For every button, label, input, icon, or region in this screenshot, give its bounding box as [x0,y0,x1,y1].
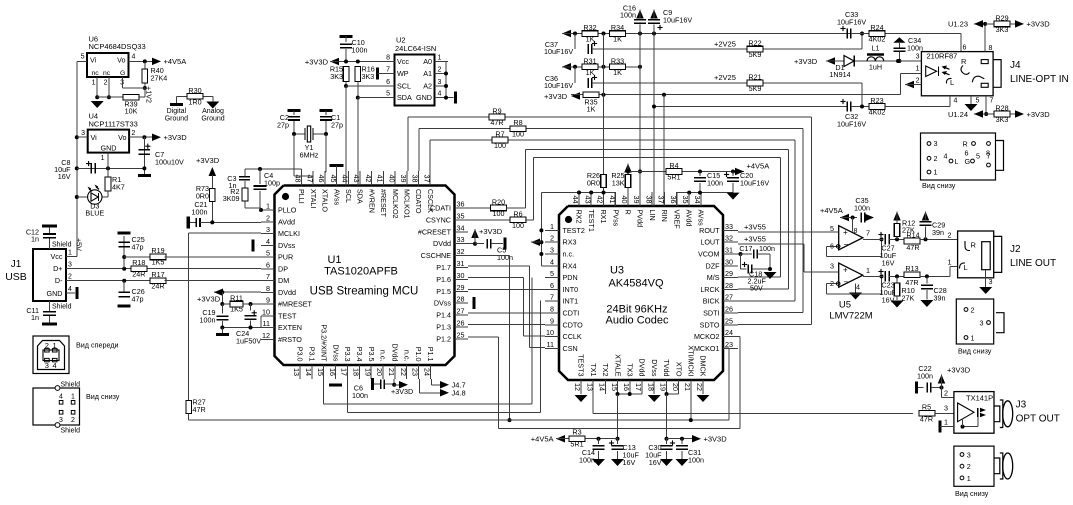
resistor R25 13K [625,175,631,188]
power +3V3D arrow at U2 Vcc [330,58,339,66]
svg-text:+3V3D: +3V3D [544,92,568,101]
arrow on RX3 row [531,238,540,246]
J4 pin8 wire [984,24,986,52]
svg-text:32: 32 [457,247,465,256]
svg-text:16V: 16V [623,458,636,467]
wire PUR to U1 [165,256,261,258]
svg-text:XTALE: XTALE [613,354,622,376]
svg-text:16V: 16V [882,259,895,268]
svg-text:Vo: Vo [118,133,126,142]
wire U1.23 net [974,23,985,25]
regulator U4 NCP1117ST33 [81,112,138,163]
svg-text:U3: U3 [610,265,624,277]
ground bar above C12 [49,227,51,233]
LED D3 BLUE [107,191,109,197]
svg-text:L: L [955,157,959,166]
svg-text:R29: R29 [995,14,1008,23]
capacitor C6 100n [371,378,374,390]
capacitor C10 100n [340,35,353,38]
wire U3 TVdd net to C30 [667,393,679,395]
wire +4V5A analog rail [628,171,744,173]
svg-text:P1.5: P1.5 [436,287,451,296]
svg-text:8: 8 [386,55,390,62]
svg-text:R31: R31 [583,56,596,65]
wire U2 address pins tied to GND [445,62,447,98]
resistor R24 4K02 [851,33,961,35]
svg-text:38: 38 [411,175,420,183]
svg-text:PUR: PUR [278,253,293,262]
svg-text:19: 19 [363,368,372,376]
svg-text:11: 11 [263,319,270,328]
svg-text:3: 3 [68,262,72,269]
svg-text:U1: U1 [327,254,341,266]
svg-text:PLLI: PLLI [297,189,306,204]
capacitor C23 10uF 16V [878,271,883,273]
wire U3 DVdd net to C13 [618,393,643,395]
svg-text:3: 3 [59,417,63,424]
svg-text:3K09: 3K09 [223,194,240,203]
svg-text:R33: R33 [611,56,624,65]
power +3V3D arrow at R35 [571,92,580,100]
svg-text:A0: A0 [423,57,432,66]
svg-text:TEST: TEST [278,311,297,320]
svg-text:6: 6 [266,260,270,269]
capacitor C36 10uF16V [574,67,576,83]
J3 optical lens symbol [994,400,1013,428]
diode D1 1N914 [826,60,921,62]
connector J4 combined box 210RF87 [921,52,993,96]
svg-text:MCKO1: MCKO1 [694,344,720,353]
capacitor C35 100n [860,212,862,222]
svg-text:D+: D+ [53,264,62,273]
svg-text:n.c.: n.c. [379,350,388,362]
svg-text:20: 20 [375,368,384,376]
svg-text:RIN: RIN [660,210,669,222]
svg-text:PVss: PVss [611,210,620,227]
ground under C30 [660,459,673,466]
svg-text:100: 100 [512,221,524,230]
svg-text:1: 1 [934,168,938,177]
svg-text:AVss: AVss [332,189,341,206]
ground arrow under C20 [727,193,740,200]
svg-text:100n: 100n [917,372,933,381]
svg-text:10uF16V: 10uF16V [544,81,573,90]
svg-text:R24: R24 [870,23,883,32]
svg-text:16V: 16V [882,296,895,305]
svg-text:4: 4 [856,283,860,292]
resistor R20 100 [491,205,507,211]
svg-text:MCLKI: MCLKI [278,229,300,238]
svg-text:D-: D- [55,276,63,285]
svg-text:42: 42 [364,175,373,183]
svg-text:210RF87: 210RF87 [927,52,958,61]
wire U4 GND pin [107,153,109,169]
svg-text:XTI/MCKI: XTI/MCKI [687,345,696,376]
resistor R28 3K3 [994,111,1010,117]
wire R5 to TX141P pin3 [935,412,954,414]
svg-text:42: 42 [596,196,605,204]
wire MCLKI to rail [189,232,261,234]
svg-text:SCL: SCL [344,189,353,203]
svg-text:USB: USB [5,271,27,283]
power +3V3D arrow at U1 DVdd pin33 [467,243,469,245]
svg-text:2: 2 [934,154,938,163]
svg-text:DVdd: DVdd [433,239,451,248]
svg-text:16: 16 [328,368,337,376]
svg-text:+4V5A: +4V5A [820,206,843,215]
power arrow left of R31 [562,63,571,71]
svg-text:#RSTO: #RSTO [278,335,302,344]
svg-text:1: 1 [71,394,75,401]
wire crystal to XTALO [325,134,327,172]
svg-text:6: 6 [550,281,554,290]
svg-text:1K: 1K [587,105,596,114]
svg-text:nc: nc [92,70,100,77]
op-amp U5b [830,262,870,292]
svg-text:Vi: Vi [91,133,98,142]
svg-text:R22: R22 [748,39,761,48]
svg-text:R34: R34 [611,23,624,32]
resistor R12 27K [893,212,901,221]
svg-text:8: 8 [989,45,993,52]
svg-text:+2V25: +2V25 [714,73,736,82]
svg-text:13K: 13K [612,179,625,188]
wire D+ to U1 DP [155,268,261,270]
wire CSYNC loop to IWS [525,219,534,221]
resistor R73 0R0 [211,175,213,221]
opto receiver symbol inside J4 [926,66,950,77]
svg-text:Digital: Digital [167,108,187,115]
svg-text:2: 2 [944,389,948,398]
svg-text:XTO: XTO [674,362,683,377]
svg-text:R19: R19 [151,246,164,255]
svg-text:P1.3: P1.3 [436,323,451,332]
svg-text:36: 36 [669,196,678,204]
svg-text:SDA: SDA [397,93,412,102]
svg-text:1K5: 1K5 [152,258,165,267]
svg-text:1: 1 [68,250,72,257]
resistor R17 24R [150,278,166,284]
svg-text:100n: 100n [192,208,208,217]
svg-text:R6: R6 [513,209,522,218]
svg-text:1R0: 1R0 [188,98,201,107]
svg-text:Audio Codec: Audio Codec [606,315,669,327]
svg-text:Analog: Analog [202,108,224,115]
svg-text:47p: 47p [132,295,144,304]
svg-text:4: 4 [53,361,57,370]
svg-text:1: 1 [971,334,975,343]
svg-text:2: 2 [438,67,442,74]
svg-text:Вид снизу: Вид снизу [922,181,956,190]
inductor L1 1uH [867,53,884,56]
power arrow left of R32 [562,30,571,38]
svg-text:INT0: INT0 [563,285,579,294]
svg-text:3: 3 [45,361,49,370]
svg-text:5: 5 [976,98,980,105]
capacitor C17 100n [741,253,753,255]
svg-text:P3.5: P3.5 [367,347,376,362]
ground arrow under U3 TEST3 [575,395,588,402]
svg-text:1n: 1n [31,313,39,322]
svg-text:7: 7 [990,98,994,105]
svg-text:OPT OUT: OPT OUT [1016,414,1060,425]
svg-text:LOUT: LOUT [700,238,720,247]
svg-text:2: 2 [266,213,270,222]
resistor R6 100 [510,217,526,223]
svg-text:12: 12 [573,383,582,391]
wire U5b feedback loop [827,283,839,285]
svg-text:14: 14 [304,368,313,376]
svg-text:23: 23 [725,340,733,349]
capacitor C5 100n [475,243,484,245]
resistor R27 47R [186,401,192,414]
svg-text:4: 4 [954,98,958,105]
svg-text:CDATO: CDATO [414,189,423,214]
svg-text:16V: 16V [649,458,662,467]
svg-text:+3V3D: +3V3D [305,58,329,67]
svg-text:4K7: 4K7 [112,183,125,192]
svg-text:7: 7 [866,229,870,238]
svg-text:CDTI: CDTI [563,309,580,318]
resistor R5 47R [919,411,935,417]
svg-text:R: R [961,57,967,66]
svg-text:TEST2: TEST2 [563,226,585,235]
wire U4 Vi [77,136,88,138]
svg-text:14: 14 [598,383,607,391]
wire C37 row to R22 [604,48,863,50]
svg-text:+3V3D: +3V3D [704,435,728,444]
svg-text:R13: R13 [905,264,918,273]
svg-text:24: 24 [423,368,432,376]
wire ROUT to op-amp U5a +input [738,231,839,233]
power arrow +4V5A op-amp [840,214,849,222]
wire to J2 pin 1 [920,275,950,277]
svg-text:R14: R14 [906,231,919,240]
svg-text:100n: 100n [579,456,595,465]
svg-text:n.c.: n.c. [402,350,411,362]
svg-text:A2: A2 [423,82,432,91]
wire CSCLK bus line with R7 [429,140,431,171]
svg-text:R: R [963,140,968,149]
svg-text:USB Streaming MCU: USB Streaming MCU [310,286,419,298]
svg-text:DMCK: DMCK [699,355,708,376]
ground bar under C19 [221,328,223,334]
svg-text:1: 1 [866,266,870,275]
svg-text:DP: DP [278,264,288,273]
svg-text:2: 2 [971,306,975,315]
resistor R23 4K02 [851,106,950,108]
capacitor C20 10uF16V [732,172,734,177]
capacitor C28 39n [926,276,928,283]
svg-text:P3.3: P3.3 [343,347,352,362]
svg-text:BLUE: BLUE [85,209,104,218]
svg-text:13: 13 [585,383,594,391]
svg-text:47R: 47R [193,405,206,414]
svg-text:4: 4 [59,394,63,401]
wire XTI MCKI drop [690,394,692,420]
J4 pin4 wire to R23 line [949,96,951,107]
svg-text:26: 26 [725,305,733,314]
svg-text:3: 3 [266,225,270,234]
capacitor C22 100n [915,382,918,394]
svg-text:+5V: +5V [75,238,84,251]
svg-text:BICK: BICK [703,297,720,306]
wire J4 pin6 drop [960,34,962,52]
svg-text:AVss: AVss [697,210,706,227]
capacitor C11 1n shield bottom [49,301,51,311]
svg-text:4K02: 4K02 [869,35,886,44]
capacitor C7 100u10V [143,137,145,175]
svg-text:J1: J1 [11,259,22,270]
J2 bottom view [956,299,1004,344]
svg-text:35: 35 [681,196,690,204]
power +3V3D arrow at U1 DVdd pin8 [214,291,261,293]
power +3V3D arrow above TX141P [938,375,946,384]
ground under C14 [592,459,605,466]
svg-text:+3V55: +3V55 [744,235,766,244]
wire P1.7 to CSN [468,265,530,267]
wire analog ground under C15 C20 [677,192,733,194]
power +3V3D arrow right of R28 [1010,113,1016,115]
wire R2 bottom to PLLO [245,207,261,209]
wire TEST net to U3 top pins [541,192,615,194]
svg-text:+2V25: +2V25 [714,40,736,49]
svg-text:J4: J4 [1010,60,1021,71]
J4 body bracket [993,60,1001,88]
digital ground bar [175,96,177,103]
svg-text:RX1: RX1 [599,210,608,224]
svg-text:20: 20 [671,383,680,391]
svg-text:DZF: DZF [706,261,721,270]
svg-text:TEST1: TEST1 [587,210,596,232]
wire R21 to C32 junction [861,83,863,107]
svg-text:40: 40 [387,175,396,183]
svg-text:P1.6: P1.6 [436,275,451,284]
svg-text:+3V3D: +3V3D [947,366,971,375]
svg-text:Ground: Ground [165,116,188,123]
svg-text:50V: 50V [750,284,763,293]
wire SCL net U2 to U1 pin44 [345,82,347,87]
svg-text:3K3: 3K3 [330,72,343,81]
svg-text:R11: R11 [230,294,243,303]
svg-text:5: 5 [550,269,554,278]
wire CDATI net with R20 [468,207,491,209]
node +1V2 [143,86,147,90]
svg-text:2: 2 [967,462,971,471]
svg-text:P3.2/#XINT: P3.2/#XINT [319,324,328,362]
svg-text:8: 8 [854,228,858,235]
svg-text:GND: GND [416,93,432,102]
svg-text:6: 6 [963,45,967,52]
svg-text:39n: 39n [934,294,946,303]
wire D- to U1 DM [165,280,261,282]
svg-text:19: 19 [659,383,668,391]
resistor R15 3K3 [343,67,349,82]
svg-text:+3V3D: +3V3D [479,227,503,236]
wire PLLI drop [301,169,303,171]
wire U6 Vi to +5V rail [77,60,87,62]
svg-text:6MHz: 6MHz [300,151,319,160]
wire J1 GND to plane [66,292,75,294]
svg-text:18: 18 [351,368,360,376]
wire crystal to XTALI [293,134,295,176]
svg-text:2: 2 [71,417,75,424]
wire DVdd pin21 node [393,379,395,385]
svg-text:1K: 1K [613,68,622,77]
svg-text:33: 33 [725,222,733,231]
wire J1 D- to R17 [66,280,151,282]
svg-text:100n: 100n [620,11,636,20]
svg-text:P3.1: P3.1 [308,347,317,362]
svg-text:7: 7 [386,67,390,74]
svg-text:MCKO2: MCKO2 [694,332,720,341]
ground under C18 [764,272,777,279]
svg-text:+4V5A: +4V5A [747,162,770,171]
svg-text:Vi: Vi [90,56,97,65]
svg-text:30: 30 [457,271,465,280]
wire P3.3 bus to INT1 [346,379,348,412]
svg-text:M/S: M/S [707,273,720,282]
svg-text:L1: L1 [872,44,880,53]
IC U3 pins top side 44-34 [571,192,706,232]
svg-text:27K: 27K [902,294,915,303]
svg-text:R5: R5 [922,403,931,412]
power arrow above R25 [624,164,632,173]
svg-text:9: 9 [550,316,554,325]
svg-text:22: 22 [399,368,408,376]
svg-text:VCOM: VCOM [698,250,720,259]
svg-text:P1.1: P1.1 [426,347,435,362]
svg-text:+: + [843,228,848,237]
svg-text:24: 24 [725,328,733,337]
svg-text:XTALO: XTALO [321,189,330,212]
resistor R22 5K9 [747,46,763,52]
svg-text:5R1: 5R1 [667,173,680,182]
wire R27 spdif bottom bus [188,233,190,401]
capacitor C14 100n [598,439,600,444]
svg-text:3: 3 [980,319,984,328]
svg-text:R21: R21 [748,73,761,82]
svg-text:nc: nc [103,70,111,77]
wire MCLK long bottom bus to MCKO1 [189,419,729,421]
svg-text:100: 100 [494,141,506,150]
regulator U6 NCP4684DSQ33 [81,35,146,87]
wire MCLKO1 bus line with R9 [407,117,409,171]
svg-text:DVss: DVss [331,344,340,362]
svg-text:5K9: 5K9 [749,84,762,93]
svg-text:1K5: 1K5 [230,305,243,314]
wire U6 nc pins to ground [96,77,98,97]
wire PLL top net [245,168,302,170]
power +3V3D arrow into D1 [826,57,835,65]
svg-text:37: 37 [422,175,431,183]
svg-text:15: 15 [316,368,325,376]
svg-text:1: 1 [53,341,57,350]
svg-text:P1.0: P1.0 [414,347,423,362]
capacitor C27 10uF 16V [878,234,883,236]
svg-text:CSCHNE: CSCHNE [421,251,452,260]
plane bar at U1 DVss pin4 [251,239,254,251]
IC U1 TAS1020APFB body [275,186,455,366]
ground arrow under U3 pin22 [697,395,710,402]
svg-text:43: 43 [352,175,361,183]
svg-text:16: 16 [622,383,631,391]
svg-text:28: 28 [457,295,465,304]
wire P1.2 down to bottom bus [468,336,499,338]
svg-text:100p: 100p [264,179,280,188]
svg-text:Vcc: Vcc [397,57,409,66]
capacitor C31 100n [680,437,684,441]
